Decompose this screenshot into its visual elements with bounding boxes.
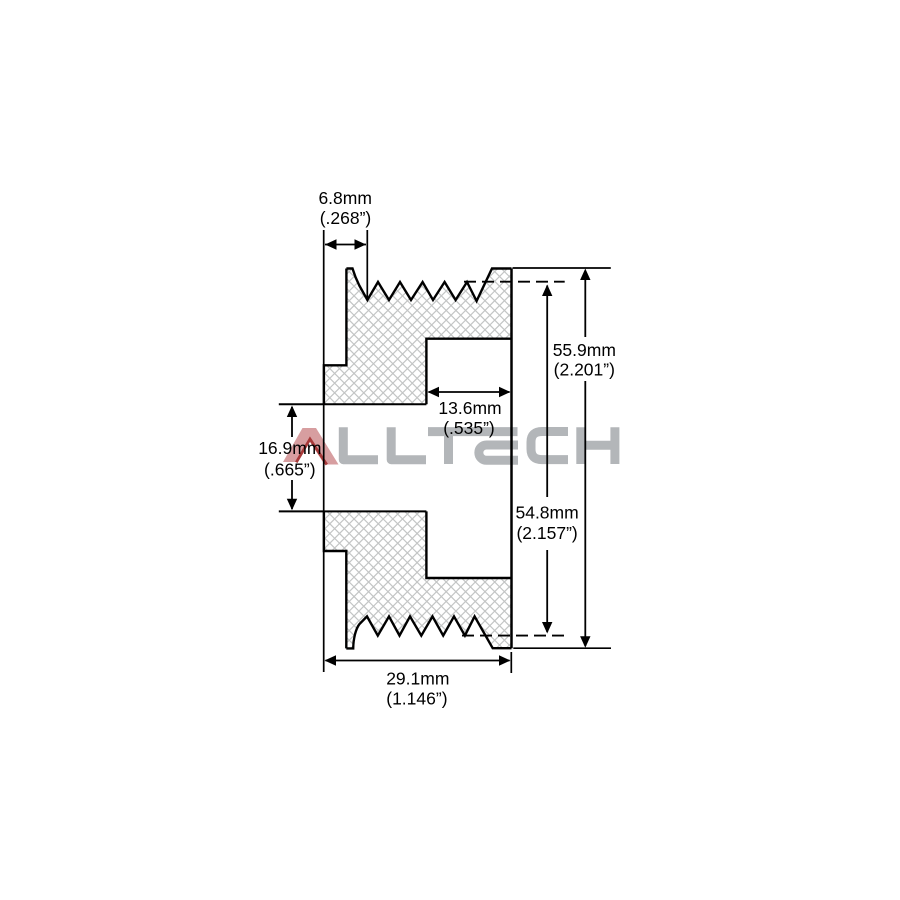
svg-text:(2.157”): (2.157”) [516, 523, 577, 543]
upper section hatch [318, 55, 517, 856]
54.8 dimension line [546, 286, 548, 498]
55.9 dimension line [584, 271, 586, 337]
bottom profile [346, 616, 511, 648]
svg-text:29.1mm: 29.1mm [386, 668, 449, 688]
right edge [510, 269, 513, 649]
svg-text:(.665”): (.665”) [264, 460, 316, 480]
bottom dashed line (54.8) [462, 635, 565, 637]
svg-text:16.9mm: 16.9mm [258, 438, 321, 458]
watermark logo ALLTECH [283, 427, 615, 464]
A red [283, 428, 339, 465]
gray letters [343, 427, 615, 464]
6.8 dimension arrow [325, 244, 366, 246]
top dashed line (54.8) [464, 281, 565, 283]
lower left face + step [324, 511, 346, 648]
upper section outline [346, 269, 511, 302]
svg-text:6.8mm: 6.8mm [318, 188, 371, 208]
bore top face [279, 403, 427, 405]
left long extension line [323, 230, 325, 672]
svg-text:(.268”): (.268”) [320, 208, 372, 228]
16.9 dimension [291, 407, 293, 437]
svg-text:(1.146”): (1.146”) [386, 688, 447, 708]
upper notch [426, 339, 511, 405]
svg-text:(.535”): (.535”) [443, 418, 495, 438]
6.8 right extension line [366, 230, 368, 298]
svg-text:13.6mm: 13.6mm [438, 398, 501, 418]
13.6 dimension arrow [429, 391, 510, 393]
top reference line (55.9) [513, 267, 611, 269]
svg-text:55.9mm: 55.9mm [553, 340, 616, 360]
lower notch [426, 511, 511, 578]
svg-text:54.8mm: 54.8mm [515, 503, 578, 523]
lower section hatch [318, 55, 517, 856]
bore bottom face [279, 510, 427, 512]
bottom reference line (55.9) [513, 647, 611, 649]
29.1 dimension [510, 652, 512, 673]
svg-text:(2.201”): (2.201”) [554, 359, 615, 379]
upper left face + step [324, 269, 347, 405]
